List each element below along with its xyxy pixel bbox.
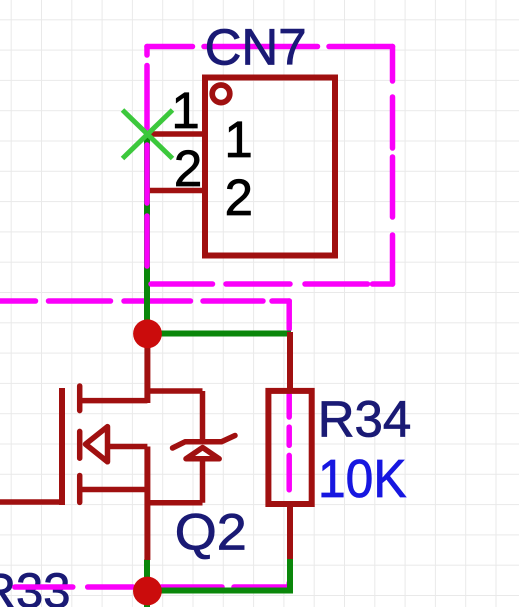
svg-text:R34: R34 (318, 391, 412, 448)
svg-text:2: 2 (174, 140, 202, 197)
svg-text:CN7: CN7 (205, 19, 307, 76)
svg-text:1: 1 (224, 111, 252, 168)
svg-text:Q2: Q2 (175, 504, 247, 561)
svg-text:1: 1 (171, 82, 199, 139)
svg-text:10K: 10K (318, 450, 407, 509)
svg-text:2: 2 (225, 169, 253, 226)
